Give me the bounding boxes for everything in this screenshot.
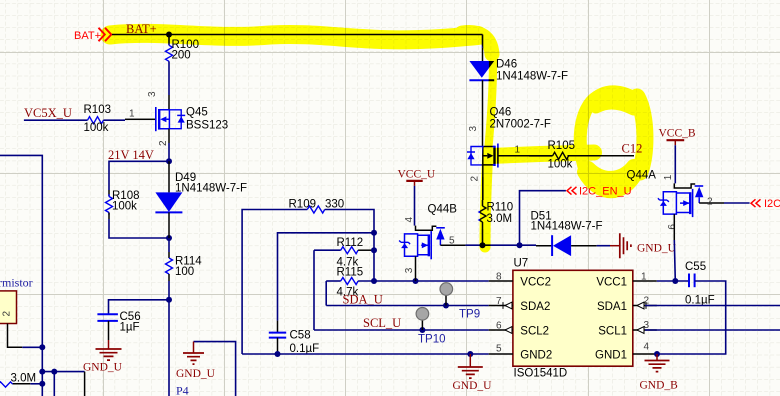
wire branch y371.6 xyxy=(42,371,84,373)
wire R109 to vertical xyxy=(325,210,374,282)
wire R105 to C12 stub xyxy=(568,155,635,157)
wire SCL1 out xyxy=(645,329,780,331)
svg-text:100k: 100k xyxy=(84,122,109,134)
pin 6 U7 xyxy=(489,329,513,331)
transistor Q46 xyxy=(467,106,551,167)
pin 1 U7 xyxy=(633,280,657,282)
power VCC_U xyxy=(398,169,436,226)
highlighter ring top xyxy=(593,92,641,103)
svg-text:GND2: GND2 xyxy=(520,349,552,361)
svg-text:Q45: Q45 xyxy=(186,107,208,119)
svg-text:GND_U: GND_U xyxy=(83,362,123,374)
testpoint TP9 xyxy=(440,283,480,321)
wire R112 down to SCL xyxy=(313,250,315,330)
transistor Q44B xyxy=(399,204,465,260)
junction C58/pin5 wire xyxy=(275,351,281,357)
wire I2C_EN_U vertical xyxy=(520,191,566,246)
junction pin5 gnd xyxy=(467,351,473,357)
svg-text:1N4148W-7-F: 1N4148W-7-F xyxy=(496,71,568,83)
svg-text:GND_U: GND_U xyxy=(453,380,493,392)
wire BAT+ down to D46 xyxy=(482,35,484,49)
pin Q44B gate down xyxy=(415,256,417,281)
ground GND_U (P4) xyxy=(183,342,204,365)
svg-text:R115: R115 xyxy=(337,266,364,278)
pin down offscreen x84.6 xyxy=(84,372,86,396)
pin 3 U7 xyxy=(633,329,657,331)
junction R108/D49/R114 xyxy=(166,235,172,241)
svg-text:1: 1 xyxy=(641,272,647,283)
svg-text:2: 2 xyxy=(470,176,481,182)
svg-text:21V 14V: 21V 14V xyxy=(108,148,154,162)
svg-text:rmistor: rmistor xyxy=(0,276,33,290)
junction R114/C56 xyxy=(166,297,172,303)
svg-text:100k: 100k xyxy=(112,200,137,212)
transistor Q45 xyxy=(141,107,228,132)
svg-text:4: 4 xyxy=(644,342,650,353)
wire R108 bottom xyxy=(108,213,110,220)
wire P4 ground net xyxy=(194,342,236,396)
svg-text:SCL2: SCL2 xyxy=(520,325,549,337)
svg-text:R109: R109 xyxy=(289,199,317,211)
highlighter branch to C12 xyxy=(490,153,594,157)
port I2C_EN_U xyxy=(567,186,632,198)
svg-text:2: 2 xyxy=(158,140,169,146)
svg-text:VCC2: VCC2 xyxy=(520,276,551,288)
svg-text:VCC_B: VCC_B xyxy=(659,128,696,140)
port BAT+ xyxy=(74,28,111,42)
wire SCL_U xyxy=(314,329,489,331)
resistor R114 xyxy=(166,256,203,279)
diode D46 xyxy=(469,59,568,83)
wire down offscreen x54 xyxy=(53,372,55,396)
transistor Q44A xyxy=(627,170,725,218)
pin D51 anode wire xyxy=(520,244,537,246)
svg-text:SDA_U: SDA_U xyxy=(343,293,383,307)
highlighter ring bottom xyxy=(584,170,638,191)
wire Q44B source row xyxy=(465,244,519,246)
svg-text:Q44B: Q44B xyxy=(428,204,458,216)
resistor R100 xyxy=(166,39,200,62)
highlighter main stroke BAT+ xyxy=(110,33,478,40)
ground GND_U (D51, rotated) xyxy=(610,233,677,258)
wire R114 to junction xyxy=(168,274,170,281)
wire D49 cathode xyxy=(168,212,170,238)
resistor 3.0M partial xyxy=(0,373,36,388)
junction 3.0M xyxy=(39,381,45,387)
svg-text:BAT+: BAT+ xyxy=(74,30,101,42)
ground GND_U (C56) xyxy=(96,349,122,360)
highlighter corner xyxy=(462,32,492,54)
svg-text:1N4148W-7-F: 1N4148W-7-F xyxy=(175,183,247,195)
junction R109v/y232.8 xyxy=(371,230,377,236)
svg-text:3.0M: 3.0M xyxy=(11,373,37,385)
svg-text:D46: D46 xyxy=(496,59,517,71)
resistor R108 xyxy=(106,190,140,215)
junction R112/vert xyxy=(371,247,377,253)
wire Q44A to U7 pin1 xyxy=(674,240,675,281)
junction branch TP net xyxy=(51,369,57,375)
component thermistor body xyxy=(0,291,17,324)
wire 3.0M to left net xyxy=(30,383,42,385)
svg-text:2: 2 xyxy=(2,311,13,317)
junction Q44B gate/pin8 xyxy=(413,278,419,284)
wire thermistor to left net xyxy=(22,346,42,348)
wire C55 loop to GND1 xyxy=(657,281,726,354)
svg-text:SCL1: SCL1 xyxy=(598,325,627,337)
capacitor C58 xyxy=(269,321,319,355)
svg-text:R112: R112 xyxy=(337,237,364,249)
testpoint TP10 xyxy=(416,308,445,346)
svg-text:C58: C58 xyxy=(290,330,311,342)
svg-text:VCC_U: VCC_U xyxy=(398,169,436,181)
junction BAT+/R100 xyxy=(166,32,172,38)
pin Q44A gate down xyxy=(673,214,675,240)
svg-text:SDA2: SDA2 xyxy=(520,301,550,313)
svg-text:VCC1: VCC1 xyxy=(596,276,627,288)
svg-text:GND_U: GND_U xyxy=(637,243,677,255)
pin 2 U7 xyxy=(633,305,657,307)
svg-text:2N7002-7-F: 2N7002-7-F xyxy=(490,119,551,131)
highlighter ring top inner xyxy=(596,102,634,108)
junction I2C_EN/row xyxy=(517,242,523,248)
pin 4 U7 xyxy=(633,353,657,355)
wire Q46 source to R110 xyxy=(482,165,484,177)
wire Q44A source to port xyxy=(724,202,750,204)
resistor R115 xyxy=(326,266,363,298)
highlighter ring right xyxy=(637,97,645,172)
junction branch xyxy=(39,369,45,375)
svg-text:SDA1: SDA1 xyxy=(597,301,627,313)
ground GND_B xyxy=(640,354,679,392)
wire 21V_14V xyxy=(109,161,169,190)
wire VC5X_U stub xyxy=(24,119,88,121)
wire U7 pin8 net xyxy=(358,280,489,282)
power VCC_B xyxy=(659,128,696,184)
svg-text:C55: C55 xyxy=(685,261,706,273)
svg-text:200: 200 xyxy=(172,50,191,62)
svg-text:GND1: GND1 xyxy=(595,349,627,361)
svg-text:VC5X_U: VC5X_U xyxy=(24,106,72,120)
wire SDA1 out xyxy=(645,305,780,307)
svg-text:I2C: I2C xyxy=(764,198,780,210)
svg-text:8: 8 xyxy=(496,272,502,283)
svg-text:1: 1 xyxy=(663,174,674,180)
resistor R112 xyxy=(314,237,374,269)
svg-text:BSS123: BSS123 xyxy=(186,120,228,132)
junction TP9 xyxy=(443,303,449,309)
svg-text:3: 3 xyxy=(404,267,415,273)
wire D49 anode xyxy=(168,161,170,192)
wire BAT+ horizontal xyxy=(112,34,483,36)
resistor R103 xyxy=(84,104,112,134)
svg-text:U7: U7 xyxy=(514,258,529,270)
svg-text:100: 100 xyxy=(175,266,194,278)
wire to C56 xyxy=(109,300,170,315)
junction thermistor/left net xyxy=(39,344,45,350)
wire SDA_U xyxy=(326,305,489,307)
junction Q45 source / D49 xyxy=(166,158,172,164)
wire pin1 to C55 xyxy=(657,280,689,282)
wire junction down offscreen xyxy=(168,300,170,396)
HIGHLIGHT xyxy=(110,32,645,247)
svg-text:6: 6 xyxy=(667,224,678,230)
svg-text:6: 6 xyxy=(496,321,502,332)
pin R103 to Q45 gate xyxy=(103,119,125,121)
diode D51 xyxy=(531,211,603,257)
pin 7 U7 xyxy=(489,305,513,307)
wire junction to R114 xyxy=(168,238,170,252)
svg-text:GND_U: GND_U xyxy=(176,368,216,380)
wire left net entering xyxy=(0,155,42,396)
junction TP10 xyxy=(419,327,425,333)
wire U7 pin5 net xyxy=(242,353,489,355)
svg-text:P4: P4 xyxy=(176,384,189,396)
wire C56 to ground xyxy=(108,321,110,340)
svg-text:3: 3 xyxy=(468,126,479,132)
pin thermistor 2 xyxy=(8,324,23,348)
highlighter ring left xyxy=(580,97,597,178)
highlighter ring bottom inner xyxy=(588,167,634,179)
port I2C (right edge) xyxy=(751,198,780,210)
svg-text:TP9: TP9 xyxy=(459,309,480,321)
svg-text:7: 7 xyxy=(496,296,502,307)
pin R110 bottom xyxy=(482,222,484,229)
svg-text:2: 2 xyxy=(707,197,713,208)
svg-text:4: 4 xyxy=(404,217,415,223)
pin D51 cathode wire xyxy=(571,245,597,247)
svg-text:GND_B: GND_B xyxy=(640,380,679,392)
junction R110/row xyxy=(480,242,486,248)
capacitor C56 xyxy=(97,311,140,334)
pin Q46 gate xyxy=(498,155,529,157)
junction pin1 xyxy=(672,278,678,284)
svg-text:3: 3 xyxy=(147,91,158,97)
svg-text:ISO1541D: ISO1541D xyxy=(514,368,568,380)
svg-text:1N4148W-7-F: 1N4148W-7-F xyxy=(531,221,603,233)
wire to R105 xyxy=(529,155,553,157)
wire R115 down to SDA xyxy=(325,281,327,306)
pin 8 U7 xyxy=(489,280,513,282)
resistor R105 xyxy=(548,140,576,171)
junction R115/vert xyxy=(371,278,377,284)
resistor R110 xyxy=(479,202,513,226)
svg-text:SCL_U: SCL_U xyxy=(363,316,401,330)
wire y232.8 to C58 xyxy=(278,233,375,321)
wire R100 to Q45 drain xyxy=(168,61,170,95)
svg-text:TP10: TP10 xyxy=(418,334,446,346)
wire Q45 source down xyxy=(168,129,170,143)
pin 5 U7 xyxy=(489,353,513,355)
svg-text:R103: R103 xyxy=(84,104,112,116)
svg-text:1: 1 xyxy=(129,109,135,120)
svg-text:5: 5 xyxy=(496,344,502,355)
svg-text:1µF: 1µF xyxy=(120,322,140,334)
wire D46 to Q46 xyxy=(482,80,484,146)
junction GND1 xyxy=(654,351,660,357)
capacitor C55 xyxy=(685,261,715,307)
diode D49 xyxy=(155,172,247,212)
resistor R109 xyxy=(289,199,345,214)
wire BAT+ to R100 xyxy=(168,35,170,46)
wire R109 net xyxy=(242,210,307,355)
highlighter vertical stroke xyxy=(488,52,493,152)
IC U7 xyxy=(513,258,633,380)
svg-text:5: 5 xyxy=(449,236,455,247)
ground GND_U (pin5) xyxy=(453,354,493,392)
